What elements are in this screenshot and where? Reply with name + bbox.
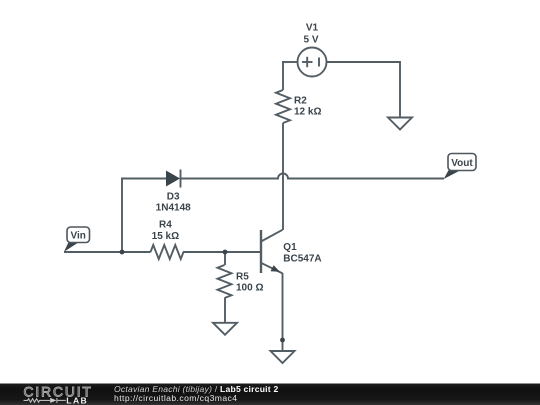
resistor R2 — [276, 90, 290, 123]
resistor R5 — [218, 265, 232, 298]
wire: Q1 emitter down to ground — [282, 273, 284, 351]
wire: ground stub below top-right corner — [399, 61, 401, 118]
junction dot (emitter/ground node) — [280, 338, 285, 343]
svg-text:12 kΩ: 12 kΩ — [294, 107, 321, 118]
wire: V1 left lead to corner — [283, 61, 298, 63]
diode D3 — [166, 170, 181, 188]
ground (below Q1 emitter) — [271, 351, 295, 363]
ground (top right) — [388, 118, 412, 130]
logo diode triangle — [50, 398, 56, 403]
wire: diode anode horizontal — [121, 178, 166, 180]
flag Vin — [64, 227, 90, 252]
ground (below R5) — [213, 323, 237, 335]
svg-text:100 Ω: 100 Ω — [236, 283, 263, 294]
wire: diode cathode to Vout with hop over collector — [181, 174, 445, 179]
svg-text:LAB: LAB — [66, 395, 88, 405]
wire: R4 to Q1 base — [183, 251, 261, 253]
logo wire with resistor and diode — [24, 398, 66, 403]
svg-text:1N4148: 1N4148 — [156, 202, 191, 213]
wire: R2 bottom down to Q1 collector — [282, 123, 284, 230]
svg-text:D3: D3 — [167, 192, 180, 203]
svg-text:15 kΩ: 15 kΩ — [152, 231, 179, 242]
svg-text:R5: R5 — [236, 271, 249, 282]
svg-text:R4: R4 — [159, 220, 172, 231]
svg-text:BC547A: BC547A — [283, 254, 321, 265]
svg-text:5 V: 5 V — [303, 34, 318, 45]
resistor R4 — [151, 245, 184, 259]
wire: V1 right lead to ground corner — [327, 61, 401, 63]
svg-text:V1: V1 — [306, 23, 319, 34]
junction dot (R4/R5/base node) — [223, 250, 228, 255]
transistor Q1 — [261, 230, 283, 274]
wire: from corner down to R2 top — [282, 61, 284, 90]
voltage source V1 — [298, 48, 327, 77]
wire: junction down to R5 top — [224, 252, 226, 265]
wire: R5 bottom to ground — [224, 298, 226, 323]
svg-text:Vout: Vout — [451, 158, 473, 169]
svg-text:R2: R2 — [294, 95, 307, 106]
wire: Vin to R4 — [64, 251, 151, 253]
svg-text:Vin: Vin — [71, 231, 86, 242]
junction dot (Vin node) — [120, 250, 125, 255]
flag Vout — [444, 154, 476, 180]
svg-text:Q1: Q1 — [283, 242, 297, 253]
svg-text:http://circuitlab.com/cq3mac4: http://circuitlab.com/cq3mac4 — [114, 393, 237, 403]
wire: left vertical from junction up to diode line — [121, 179, 123, 253]
